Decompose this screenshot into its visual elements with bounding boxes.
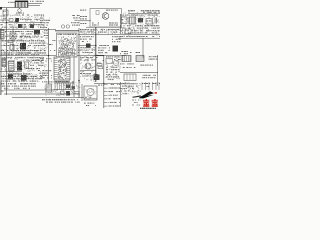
value labels mid col: [97, 60, 104, 64]
value labels top-mid: [40, 15, 87, 28]
logo character 2: [151, 99, 158, 107]
node D: [6, 22, 7, 23]
value label DY1 inner: [85, 96, 91, 99]
wire: [78, 45, 96, 47]
bridge rectifier D101: [10, 33, 16, 39]
transistor Q103: [86, 44, 91, 49]
resistor R301: [97, 64, 102, 66]
wire: [78, 20, 91, 22]
relay RL1: [34, 30, 40, 35]
CRT socket CN4: [104, 84, 120, 107]
capacitor C402: [72, 86, 76, 89]
value labels audio top: [80, 57, 98, 60]
logo swallow: [132, 91, 154, 98]
wire: [157, 55, 159, 86]
wire: [142, 38, 144, 58]
component clutter left-mid: [2, 31, 48, 55]
value labels right sparse: [120, 51, 140, 54]
wire: [28, 3, 42, 5]
transistor Q102: [20, 43, 26, 50]
wire: [81, 84, 83, 101]
wire: [86, 26, 122, 28]
wire: [120, 72, 158, 74]
transistor Q106: [8, 75, 13, 80]
wire: [0, 7, 15, 9]
wire: [73, 55, 75, 97]
value labels chroma rows: [78, 45, 110, 53]
connector CN3: [1, 82, 4, 95]
transistor Q104: [113, 46, 119, 52]
logo gray text: [132, 100, 141, 106]
component clutter east: [120, 82, 141, 95]
value labels deflection bottom: [42, 99, 80, 102]
wire: [55, 30, 79, 32]
capacitor C1: [3, 10, 8, 15]
value labels IF row: [120, 25, 160, 33]
diode D302: [136, 56, 144, 62]
background: [0, 0, 160, 110]
logo trademark: [155, 92, 157, 93]
wire: [120, 14, 122, 34]
value labels vert col: [106, 56, 124, 79]
value labels audio mid: [80, 73, 92, 76]
capacitor C303: [96, 75, 100, 81]
component clutter band1: [1, 15, 45, 30]
IC U304: [124, 74, 136, 81]
transistor Q301: [85, 63, 91, 69]
IC U202: [129, 17, 136, 24]
wire: [78, 34, 160, 36]
wire: [4, 93, 80, 95]
value labels power row1: [5, 31, 43, 38]
fuse F1: [0, 7, 2, 10]
wire: [0, 29, 56, 31]
transistor Q105: [17, 62, 22, 71]
crystal X201: [138, 18, 143, 23]
wire: [80, 70, 96, 72]
value labels rect row: [1, 19, 45, 28]
value labels drive col: [40, 58, 52, 78]
value labels br rows: [120, 83, 138, 94]
wire: [12, 97, 84, 99]
wire: [4, 89, 58, 91]
value label U302: [54, 81, 70, 83]
value labels power row2: [1, 40, 47, 55]
capacitor C311: [66, 25, 69, 28]
IC U302: [54, 57, 70, 80]
value label video-in: [80, 10, 87, 11]
value labels video row: [80, 29, 121, 42]
transformer T102: [1, 30, 5, 40]
value labels flyback: [142, 75, 156, 78]
capacitor C104: [25, 62, 29, 68]
electrolytic capacitor C103: [10, 45, 14, 51]
value labels low-left top: [1, 57, 45, 60]
wire: [6, 8, 8, 95]
transformer T103: [2, 59, 6, 67]
component clutter chroma: [80, 47, 96, 82]
capacitor C3: [30, 24, 34, 28]
value labels tuner: [120, 10, 160, 15]
transistor Q107: [21, 75, 27, 81]
node A: [48, 55, 50, 57]
value label T1: [8, 1, 44, 3]
filter FL1: [54, 83, 74, 90]
IC U101: [90, 9, 122, 28]
wire: [77, 55, 126, 57]
IC U303: [106, 59, 113, 64]
thermistor TH1: [16, 8, 24, 14]
value labels low-left bottom: [1, 73, 43, 81]
diode D401: [66, 85, 70, 89]
deflection yoke DY1: [84, 86, 97, 100]
component clutter video: [81, 29, 120, 35]
component clutter left-low: [2, 57, 46, 83]
component clutter vert: [105, 57, 121, 81]
wire: [0, 71, 22, 73]
resistor network RN1: [142, 82, 160, 90]
wire: [95, 27, 97, 82]
resistor R102: [109, 23, 118, 26]
resistor R103: [8, 41, 13, 43]
value labels AC input: [1, 15, 45, 19]
diode D1: [15, 18, 19, 22]
wire: [0, 28, 2, 95]
transistor Q101: [102, 13, 109, 20]
IC U301: [57, 33, 78, 57]
wire: [12, 27, 14, 55]
IC U201: [121, 17, 127, 24]
resistor R402: [61, 91, 65, 95]
IC U204: [125, 29, 131, 34]
wire: [0, 55, 56, 57]
wire: [0, 22, 44, 24]
value labels AGC row: [120, 36, 160, 37]
resistor R101: [92, 23, 99, 26]
diode D301: [122, 56, 131, 62]
capacitor C310: [61, 25, 64, 28]
node C: [95, 45, 97, 47]
value label U101: [106, 10, 118, 11]
node B: [78, 80, 80, 82]
logo character 1: [143, 99, 150, 107]
value labels HV: [120, 56, 158, 68]
resistor R302: [98, 67, 103, 69]
component clutter tuner: [121, 11, 160, 36]
component clutter yoke: [85, 89, 96, 100]
value labels sync col: [44, 30, 55, 51]
component clutter deflection: [45, 82, 81, 96]
value label DY1: [84, 85, 104, 106]
transistor Q401: [66, 91, 70, 96]
wire: [94, 83, 126, 85]
wire: [48, 28, 50, 84]
value labels low-left mid: [1, 60, 45, 71]
wire: [128, 13, 160, 15]
resistor R1: [9, 19, 13, 22]
resistor R401: [74, 92, 79, 94]
capacitor C101: [96, 11, 99, 15]
wire: [103, 55, 105, 108]
capacitor C302: [94, 74, 98, 80]
node E: [103, 83, 104, 84]
wire: [120, 82, 122, 107]
wire: [28, 5, 40, 7]
IC U103: [9, 61, 15, 72]
wire: [78, 28, 80, 98]
capacitor C2: [18, 24, 22, 28]
logo caption: [140, 108, 156, 109]
transformer T1: [15, 1, 28, 8]
transformer T401: [46, 84, 52, 92]
wire: [118, 37, 160, 39]
value labels deflection top: [42, 81, 80, 82]
wire: [94, 55, 104, 57]
transistor Q302: [113, 60, 118, 65]
capacitor C202: [155, 18, 157, 24]
value labels cn rows: [1, 83, 37, 89]
IC U203: [146, 19, 153, 25]
